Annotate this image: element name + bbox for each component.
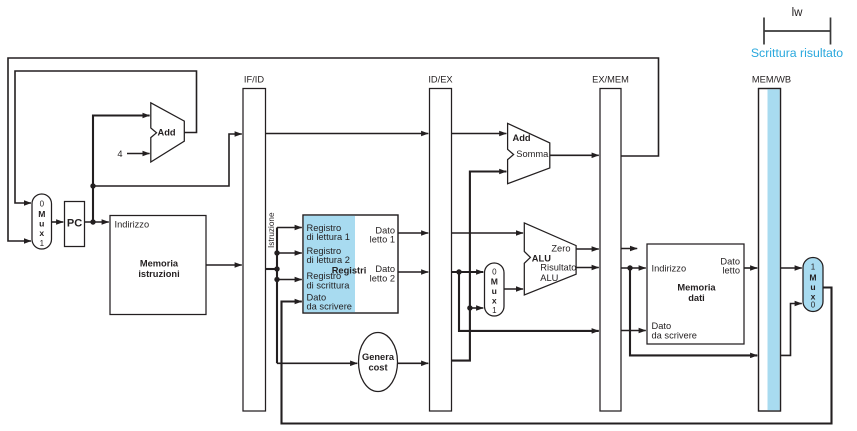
svg-text:1: 1	[492, 306, 497, 315]
svg-text:di lettura 1: di lettura 1	[307, 232, 350, 242]
svg-text:x: x	[492, 296, 497, 306]
wire write-back to register file	[282, 288, 832, 424]
mux M3 (write-back, highlighted)	[803, 258, 823, 312]
wire 4 to Add	[127, 153, 150, 155]
wire immediate ID/EX up to Add Somma	[452, 172, 507, 361]
svg-text:M: M	[491, 277, 498, 287]
wire read data 2 to ID/EX	[398, 271, 428, 273]
svg-text:Memoria: Memoria	[140, 259, 179, 269]
wire instruction memory to IF/ID	[206, 264, 242, 266]
wire sign extend to ID/EX	[398, 362, 429, 364]
wire PC to instruction memory	[85, 221, 109, 223]
wire to sign extend	[277, 362, 357, 364]
svg-text:Zero: Zero	[551, 244, 570, 254]
wire instruction out of IF/ID	[266, 268, 278, 270]
wire PC to IF/ID	[93, 134, 242, 186]
mux M2 (ALU operand)	[485, 263, 505, 316]
svg-text:1: 1	[811, 263, 816, 272]
wire read data 1 to ID/EX	[398, 232, 428, 234]
svg-text:Dato: Dato	[652, 321, 672, 331]
wire instruction bus vertical	[276, 228, 278, 364]
svg-text:0: 0	[40, 200, 45, 209]
svg-text:istruzioni: istruzioni	[138, 269, 179, 279]
wire MEM/WB ALU result to WB mux input 0	[781, 304, 802, 356]
register file Registri	[303, 215, 398, 313]
wire ALU result bypass to MEM/WB	[630, 268, 757, 355]
svg-text:ALU: ALU	[540, 273, 558, 283]
junction dot ALU result	[627, 265, 632, 270]
instruction memory	[110, 216, 206, 315]
svg-text:x: x	[39, 228, 44, 238]
mux M1 (PC source)	[32, 194, 52, 249]
wire ALU result to EX/MEM	[576, 267, 599, 269]
wire PC+4 feedback (Add to PC mux input 0)	[15, 71, 197, 203]
svg-text:EX/MEM: EX/MEM	[592, 75, 629, 85]
svg-text:Scrittura risultato: Scrittura risultato	[751, 46, 843, 60]
wire ID/EX to ALU input 1	[452, 232, 524, 234]
svg-text:Dato: Dato	[375, 264, 395, 274]
svg-text:IF/ID: IF/ID	[244, 75, 264, 85]
svg-text:u: u	[492, 286, 497, 296]
sign extend Genera cost	[359, 333, 398, 392]
svg-text:Registro: Registro	[307, 271, 342, 281]
svg-text:Somma: Somma	[516, 149, 549, 159]
wire ALU zero to EX/MEM	[576, 248, 599, 250]
svg-text:di scrittura: di scrittura	[307, 281, 351, 291]
wire PC+4 IF/ID to ID/EX	[266, 133, 429, 135]
data memory	[647, 244, 744, 344]
junction dot instr read2	[274, 250, 279, 255]
wire read data 2 down to EX/MEM	[459, 272, 599, 331]
svg-text:MEM/WB: MEM/WB	[752, 75, 791, 85]
svg-text:di lettura 2: di lettura 2	[307, 255, 350, 265]
wire mux to PC	[52, 221, 64, 223]
svg-text:da scrivere: da scrivere	[307, 302, 352, 312]
svg-text:PC: PC	[67, 218, 82, 230]
wire ID/EX to ALU mux input 0	[452, 271, 484, 273]
wire zero out of EX/MEM	[621, 248, 638, 250]
wire EX/MEM to data memory write data	[621, 330, 646, 332]
adder Add (PC+4)	[151, 103, 185, 162]
wire ALU result to data memory address	[621, 267, 646, 269]
svg-text:da scrivere: da scrivere	[652, 331, 697, 341]
wire to write register	[277, 279, 302, 281]
svg-text:1: 1	[40, 239, 45, 248]
ALU	[524, 223, 576, 295]
wire Add Somma to EX/MEM	[550, 154, 599, 156]
svg-text:lw: lw	[792, 7, 804, 19]
svg-text:dati: dati	[688, 293, 705, 303]
wire PC vertical bus to Add	[93, 116, 150, 223]
junction dot PC branch	[90, 183, 95, 188]
svg-text:Memoria: Memoria	[677, 283, 716, 293]
wire immediate to ALU mux input 1	[470, 307, 483, 309]
adder Add Somma (branch target)	[508, 123, 550, 183]
svg-text:cost: cost	[368, 363, 387, 373]
svg-text:ID/EX: ID/EX	[428, 75, 452, 85]
wire to read register 2	[277, 252, 302, 254]
wire ALU mux to ALU input 2	[504, 288, 523, 290]
lw bracket	[764, 7, 831, 45]
svg-text:Risultato: Risultato	[540, 262, 576, 272]
svg-text:letto 2: letto 2	[370, 274, 395, 284]
svg-text:0: 0	[811, 301, 816, 310]
svg-text:letto 1: letto 1	[370, 235, 395, 245]
svg-text:Add: Add	[158, 127, 176, 137]
svg-text:0: 0	[492, 268, 497, 277]
register PC	[65, 202, 85, 247]
svg-text:M: M	[38, 209, 45, 219]
wire MEM/WB to WB mux input 1	[781, 267, 802, 269]
svg-text:Indirizzo: Indirizzo	[115, 220, 150, 230]
svg-text:Genera: Genera	[362, 352, 395, 362]
wire to read register 1	[277, 227, 302, 229]
pipeline register ID/EX	[428, 75, 452, 412]
pipeline register MEM/WB (highlighted)	[752, 75, 791, 412]
junction dot instr in	[274, 266, 279, 271]
junction dot read data 2	[456, 269, 461, 274]
svg-text:4: 4	[117, 149, 122, 159]
wire data memory read data to MEM/WB	[744, 267, 757, 269]
svg-text:M: M	[809, 273, 816, 283]
svg-text:Indirizzo: Indirizzo	[652, 264, 687, 274]
svg-text:Istruzione: Istruzione	[267, 212, 276, 248]
svg-text:u: u	[39, 219, 44, 229]
pipeline register EX/MEM	[592, 75, 629, 412]
svg-text:Add: Add	[513, 133, 531, 143]
junction dot PC out	[90, 219, 95, 224]
wire branch feedback (EX/MEM to PC mux input 1)	[8, 58, 659, 241]
junction dot immediate	[467, 305, 472, 310]
svg-text:u: u	[810, 282, 815, 292]
junction dot instr write	[274, 277, 279, 282]
pipeline register IF/ID	[243, 75, 266, 412]
wire ID/EX to Add Somma	[452, 133, 507, 135]
svg-text:letto: letto	[722, 266, 740, 276]
